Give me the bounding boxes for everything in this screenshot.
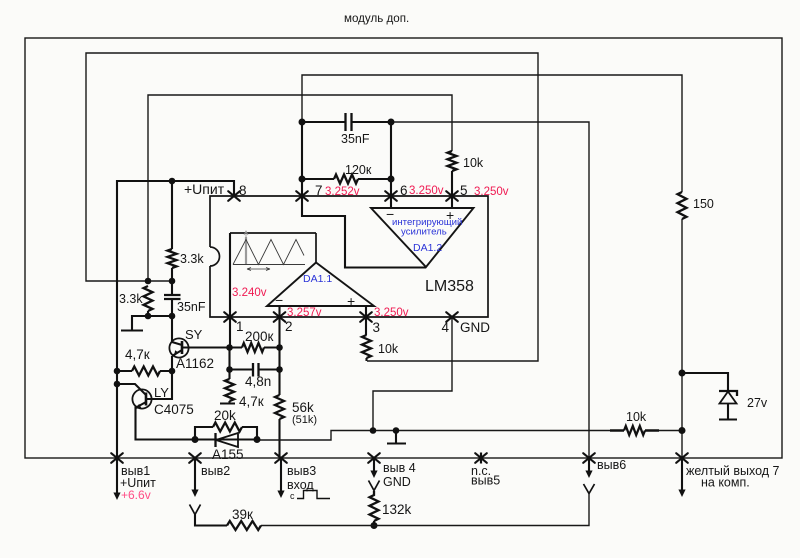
waveform period arrow — [247, 268, 270, 271]
wire 3.3k left bottom — [147, 311, 149, 316]
waveform box top edge — [230, 232, 316, 234]
svg-text:20k: 20k — [214, 408, 236, 423]
svg-text:LY: LY — [154, 385, 169, 400]
svg-text:+Uпит: +Uпит — [184, 181, 225, 197]
node A155 left — [192, 436, 199, 443]
pin vyv3 marker — [275, 453, 287, 463]
svg-text:3.3k: 3.3k — [180, 252, 204, 266]
node bias bottom right — [169, 313, 176, 320]
resistor 10k lead to pin5 — [451, 171, 453, 209]
pin vyv1 arrow — [116, 458, 118, 493]
node 3.3k/35nF top — [169, 278, 176, 285]
svg-text:8: 8 — [239, 183, 247, 198]
wire third loop: 3.3k bias to 10k/pin5 — [148, 95, 452, 281]
wire 35nF node to SY collector — [171, 316, 173, 342]
svg-text:c: c — [290, 491, 295, 501]
diode A155 bar — [214, 433, 216, 447]
svg-text:DA1.2: DA1.2 — [413, 242, 442, 254]
svg-text:SY: SY — [185, 327, 203, 342]
pin 7 marker — [296, 191, 308, 201]
wire 150 down to yellow output — [681, 219, 683, 458]
svg-text:56k: 56k — [292, 400, 314, 415]
pin vyv7 marker — [676, 453, 688, 463]
wire A155 span — [195, 438, 257, 440]
pin vyv3 arrow — [280, 458, 282, 491]
svg-text:4,8n: 4,8n — [245, 374, 271, 389]
resistor 200k leads — [230, 346, 280, 348]
capacitor 35nF (left) lead top — [171, 281, 173, 295]
connector fork vyv2 — [190, 505, 201, 515]
resistor 4.7k (vertical) end bar — [220, 401, 235, 404]
resistor 4.7k (left) leads — [117, 370, 172, 372]
wire 10k bottom stub — [365, 358, 367, 361]
svg-text:5: 5 — [460, 183, 468, 198]
svg-text:3.250v: 3.250v — [374, 307, 409, 319]
node 132k bottom — [371, 522, 378, 529]
svg-text:+: + — [347, 293, 355, 309]
wire pin7 vertical — [301, 122, 303, 196]
svg-text:6: 6 — [400, 183, 408, 198]
svg-text:4,7к: 4,7к — [239, 394, 264, 409]
pin vyv6 marker — [583, 453, 595, 463]
zener diode 27v — [682, 373, 737, 420]
pin vyv1 marker — [111, 453, 123, 463]
resistor 3.3k (upper) zigzag — [168, 249, 177, 268]
svg-text:выв6: выв6 — [597, 458, 626, 472]
pin 3 marker — [360, 312, 372, 322]
resistor 56k zigzag — [275, 395, 284, 419]
node +Upit junction — [169, 178, 176, 185]
svg-text:120к: 120к — [345, 163, 372, 177]
wire vyv6 to 39k bus — [374, 493, 589, 526]
wire LY base up to node — [146, 371, 172, 399]
node 4.8n right — [276, 366, 283, 373]
op-amp DA1.1 triangle — [267, 263, 374, 307]
resistor 10k (top) zigzag — [448, 151, 457, 171]
svg-text:−: − — [275, 292, 283, 308]
IC U1 LM358 package box — [210, 196, 488, 317]
node LY collector tap — [114, 381, 121, 388]
wire pin3 to 10k — [365, 317, 367, 335]
wire bias bottom junction — [148, 315, 172, 317]
waveform tiny marks — [244, 231, 248, 237]
transistor Q1 SY A1162 — [169, 338, 188, 357]
node SY emitter / LY base — [169, 368, 176, 375]
resistor 20k bypass wire — [195, 427, 257, 440]
node 35nF right — [388, 119, 395, 126]
wire pin2 vertical — [278, 306, 280, 395]
wire to 3.3k upper — [171, 181, 173, 249]
wire second loop: pin3 10k to top frame — [86, 53, 538, 361]
svg-text:+6.6v: +6.6v — [121, 488, 151, 502]
svg-text:3.257v: 3.257v — [287, 307, 322, 319]
connector fork vyv6 — [584, 484, 595, 494]
wire 3.3k to node — [171, 268, 173, 281]
waveform box right edge — [315, 233, 317, 263]
transistor Q2 LY C4075 — [117, 384, 152, 409]
resistor 20k zigzag — [213, 423, 242, 432]
svg-text:модуль доп.: модуль доп. — [344, 12, 409, 25]
node 120k left — [299, 176, 306, 183]
node 35nF left — [299, 119, 306, 126]
svg-text:200к: 200к — [245, 329, 274, 344]
svg-text:усилитель: усилитель — [401, 227, 447, 238]
svg-text:132k: 132k — [382, 502, 412, 517]
pin 6 marker — [385, 191, 397, 201]
pin 2 marker — [274, 312, 286, 322]
wire 39k bus left segment — [261, 525, 374, 527]
svg-text:7: 7 — [315, 183, 323, 198]
node 150/zener — [679, 370, 686, 377]
node pin4 drop — [370, 427, 377, 434]
wire pin6 vertical — [390, 122, 392, 209]
svg-text:DA1.1: DA1.1 — [303, 273, 332, 285]
wire outer frame rectangle / bottom pin rail — [25, 38, 782, 458]
resistor 10k (gnd bus) zigzag — [624, 426, 645, 435]
wire bottom gnd bus — [257, 431, 610, 441]
svg-text:выв5: выв5 — [471, 474, 500, 488]
svg-text:35nF: 35nF — [177, 300, 206, 314]
diode A155 triangle — [216, 433, 238, 447]
svg-text:GND: GND — [383, 475, 411, 489]
resistor 39k zigzag — [227, 521, 261, 530]
svg-text:4,7к: 4,7к — [125, 347, 150, 362]
node 4.8n left — [226, 366, 233, 373]
svg-text:3.3k: 3.3k — [119, 292, 143, 306]
pin 5 marker — [446, 191, 458, 201]
capacitor 35nF (left) plates — [164, 295, 181, 299]
pin vyv4 marker — [368, 453, 380, 463]
wire DA1.2 output to pin7 — [302, 196, 426, 268]
svg-text:3.240v: 3.240v — [232, 287, 267, 299]
node pin1/200k/base — [226, 344, 233, 351]
svg-text:выв 4: выв 4 — [383, 461, 416, 475]
wire 56k to vyv3 — [278, 419, 280, 458]
resistor 132k zigzag — [370, 491, 379, 521]
svg-text:10k: 10k — [626, 410, 647, 424]
node A155 right — [254, 436, 261, 443]
svg-text:27v: 27v — [747, 396, 768, 410]
pin vyv2 marker — [189, 453, 201, 463]
svg-text:C4075: C4075 — [154, 402, 194, 417]
svg-text:выв2: выв2 — [201, 464, 230, 478]
resistor 10k (gnd bus) leads — [610, 429, 659, 432]
svg-text:LM358: LM358 — [425, 278, 474, 295]
node bias loop left — [145, 278, 152, 285]
ground (bottom bus) — [387, 431, 406, 444]
waveform triangle wave — [233, 240, 304, 265]
svg-text:выв3: выв3 — [287, 464, 316, 478]
waveform baseline — [233, 264, 305, 266]
IC notch — [210, 247, 220, 266]
wire pin1 vertical (waveform box left edge) — [229, 233, 231, 348]
pin 8 marker — [228, 191, 240, 201]
svg-text:(51k): (51k) — [292, 414, 317, 426]
wire node down to 4.8n — [228, 348, 230, 380]
wire 10k to node — [659, 430, 682, 432]
resistor 4.7k (left) zigzag — [132, 367, 160, 376]
svg-text:3.252v: 3.252v — [325, 186, 360, 198]
pin vyv7 arrow — [681, 458, 683, 490]
pin vyv6 arrow — [588, 458, 590, 471]
wire vyv2 fork to 39k — [195, 515, 227, 526]
wire +Upit rail from vyv1 — [117, 181, 234, 458]
svg-text:2: 2 — [285, 319, 293, 334]
node 200k right — [276, 344, 283, 351]
pin 1 marker — [224, 312, 236, 322]
node 10k/output — [679, 427, 686, 434]
svg-text:35nF: 35nF — [341, 132, 370, 146]
svg-text:3.250v: 3.250v — [409, 185, 444, 197]
capacitor 4.8n plates — [253, 363, 259, 377]
svg-text:A155: A155 — [212, 447, 244, 462]
waveform axis (gray) — [245, 237, 247, 265]
capacitor 35nF (top) plates — [346, 113, 352, 131]
svg-text:10k: 10k — [378, 342, 399, 356]
pin vyv2 arrow — [194, 458, 196, 490]
resistor 10k (pin3) zigzag — [362, 335, 371, 358]
node bias bottom left — [145, 313, 152, 320]
svg-text:на комп.: на комп. — [701, 476, 750, 490]
pin vyv5 marker (n.c.) — [475, 453, 487, 463]
resistor 150 zigzag — [678, 192, 687, 219]
ground (bias network) — [121, 316, 148, 331]
svg-text:150: 150 — [693, 197, 714, 211]
capacitor 35nF (top) leads — [302, 121, 391, 123]
capacitor 35nF (left) lead bottom — [171, 299, 173, 316]
node 120k right — [388, 176, 395, 183]
wire SY emitter down — [171, 356, 173, 371]
resistor 200k zigzag — [242, 343, 264, 352]
pin vyv4 arrow — [373, 458, 375, 471]
svg-text:A1162: A1162 — [176, 356, 214, 371]
svg-text:10k: 10k — [463, 156, 484, 170]
svg-text:1: 1 — [236, 319, 244, 334]
pin 4 marker — [446, 312, 458, 322]
connector fork vyv4 — [369, 481, 380, 491]
op-amp DA1.2 triangle — [371, 208, 474, 267]
wire DA1.1 pin3 stub — [365, 306, 367, 317]
svg-text:GND: GND — [460, 320, 490, 335]
svg-text:4: 4 — [442, 320, 450, 335]
wire pin4 GND route — [373, 317, 452, 431]
node ground stub — [393, 427, 400, 434]
svg-text:3.250v: 3.250v — [474, 186, 509, 198]
wire SY base to pin1 node — [182, 346, 229, 348]
wire LY emitter to A155 node — [136, 408, 196, 440]
capacitor 4.8n leads — [230, 368, 280, 370]
resistor 4.7k (vertical) zigzag — [225, 379, 234, 401]
wire 35nF right plate to vyv6 — [391, 122, 589, 458]
resistor 120k zigzag — [334, 175, 358, 184]
wire output loop: 35nF left node to 150 resistor — [302, 75, 682, 192]
resistor 3.3k (left) zigzag — [144, 286, 153, 311]
wire 132k to 39k bus — [373, 521, 375, 526]
svg-text:39к: 39к — [232, 507, 253, 522]
node 4.7k left end — [114, 368, 121, 375]
svg-text:3: 3 — [373, 320, 381, 335]
resistor 120k leads — [302, 178, 391, 180]
